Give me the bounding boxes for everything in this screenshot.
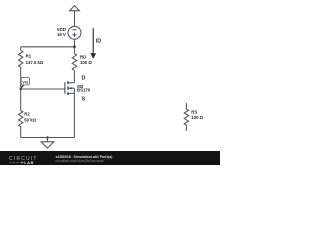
- svg-text:15 V: 15 V: [57, 32, 66, 37]
- svg-text:circuitlab.com/c8vw3fe2zemywk: circuitlab.com/c8vw3fe2zemywk: [56, 159, 105, 163]
- svg-text:100 Ω: 100 Ω: [191, 115, 203, 120]
- svg-text:R2: R2: [24, 111, 30, 116]
- svg-text:100 Ω: 100 Ω: [80, 60, 92, 65]
- svg-text:D: D: [82, 76, 86, 82]
- svg-text:LAB: LAB: [24, 160, 34, 165]
- svg-text:ID: ID: [96, 38, 101, 44]
- svg-text:VG: VG: [22, 79, 28, 84]
- svg-text:R1: R1: [26, 53, 32, 58]
- svg-text:s4280518 : SimulationLab2 Part: s4280518 : SimulationLab2 Part1(a): [56, 155, 113, 159]
- svg-text:50 kΩ: 50 kΩ: [24, 117, 36, 122]
- svg-text:RD: RD: [80, 55, 86, 60]
- svg-text:BS170: BS170: [77, 88, 91, 93]
- svg-text:S: S: [82, 97, 86, 103]
- svg-text:137.5 kΩ: 137.5 kΩ: [26, 60, 44, 65]
